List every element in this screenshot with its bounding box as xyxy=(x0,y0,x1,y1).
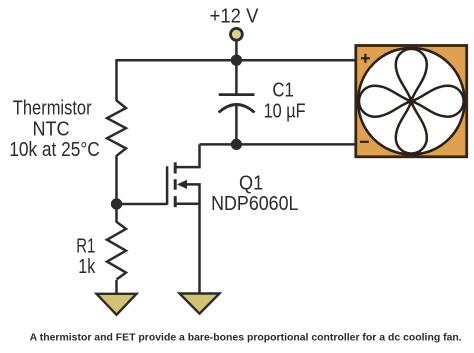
wire R1 to ground xyxy=(115,280,118,295)
svg-text:NTC: NTC xyxy=(32,118,69,140)
capacitor C1 bottom plate xyxy=(219,105,255,113)
fan M1 blade up xyxy=(396,49,427,101)
wire bottom rail xyxy=(200,143,356,146)
transistor Q1 channel bar bottom xyxy=(174,196,177,207)
junction top node xyxy=(231,55,242,66)
fan M1 rotor circle xyxy=(358,48,465,155)
svg-text:Q1: Q1 xyxy=(239,172,263,194)
capacitor C1 top plate xyxy=(219,93,255,96)
svg-text:10 µF: 10 µF xyxy=(264,100,306,122)
fan M1 blade left xyxy=(359,86,411,117)
transistor Q1 channel bar middle xyxy=(174,179,177,190)
wire drain lead xyxy=(175,144,199,167)
wire thermistor to gate node xyxy=(115,155,118,210)
wire source lead xyxy=(175,204,199,294)
fan plus terminal xyxy=(361,54,370,63)
svg-text:A thermistor and FET provide a: A thermistor and FET provide a bare-bone… xyxy=(30,332,462,343)
wire top rail xyxy=(117,59,356,62)
svg-text:Thermistor: Thermistor xyxy=(13,97,92,119)
wire capacitor top lead xyxy=(235,60,238,94)
svg-text:R1: R1 xyxy=(76,235,95,257)
resistor R1 body xyxy=(107,222,126,280)
fan M1 blade right xyxy=(411,86,463,117)
wire terminal lead xyxy=(235,41,238,60)
+12 V terminal xyxy=(231,28,243,40)
fan M1 hub xyxy=(408,98,414,104)
wire capacitor bottom lead xyxy=(235,106,238,144)
wire gate lead xyxy=(117,203,168,206)
svg-text:+12 V: +12 V xyxy=(210,6,259,28)
svg-text:NDP6060L: NDP6060L xyxy=(211,193,298,215)
wire left drop to thermistor xyxy=(115,59,118,101)
junction gate node xyxy=(111,198,122,209)
fan M1 frame xyxy=(356,46,467,157)
junction drain node xyxy=(231,139,242,150)
ground left xyxy=(97,294,137,315)
fan M1 blade down xyxy=(396,101,427,153)
wire body lead xyxy=(186,184,200,203)
ground right xyxy=(180,294,220,314)
fan minus terminal xyxy=(360,141,369,143)
transistor Q1 body arrow xyxy=(177,180,187,189)
svg-text:10k at 25°C: 10k at 25°C xyxy=(9,139,100,161)
transistor Q1 channel bar top xyxy=(174,162,177,173)
transistor Q1 gate bar xyxy=(166,166,169,205)
thermistor NTC body xyxy=(107,101,126,156)
wire node to R1 xyxy=(115,209,118,223)
svg-text:C1: C1 xyxy=(272,79,293,101)
svg-text:1k: 1k xyxy=(78,256,96,278)
